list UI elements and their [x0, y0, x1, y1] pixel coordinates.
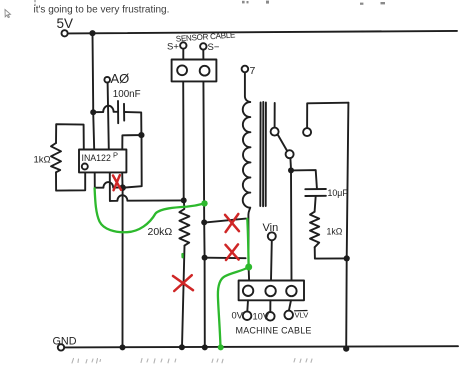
- svg-text:0V: 0V: [232, 311, 244, 321]
- svg-text:10μF: 10μF: [328, 188, 349, 198]
- svg-text:1kΩ: 1kΩ: [34, 155, 51, 166]
- svg-text:P: P: [113, 151, 118, 160]
- svg-text:VLV: VLV: [295, 311, 310, 320]
- svg-text:Vin: Vin: [263, 222, 279, 234]
- svg-text:INA122: INA122: [82, 153, 111, 163]
- svg-text:S−: S−: [208, 42, 220, 53]
- svg-text:7: 7: [250, 65, 256, 77]
- svg-text:GND: GND: [53, 336, 77, 348]
- svg-text:5V: 5V: [57, 16, 74, 31]
- svg-text:1kΩ: 1kΩ: [327, 227, 343, 237]
- svg-text:MACHINE CABLE: MACHINE CABLE: [236, 326, 312, 336]
- svg-text:20kΩ: 20kΩ: [148, 226, 173, 238]
- svg-text:S+: S+: [167, 42, 179, 53]
- svg-text:it's going to be very frustrat: it's going to be very frustrating.: [34, 4, 170, 15]
- svg-text:AØ: AØ: [111, 71, 130, 86]
- svg-text:10V: 10V: [253, 312, 270, 322]
- svg-text:100nF: 100nF: [113, 89, 141, 100]
